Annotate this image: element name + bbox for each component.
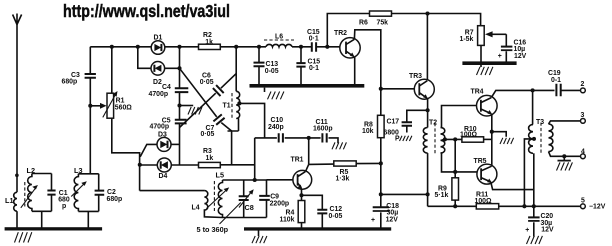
wire C18 node to T2 xyxy=(381,193,428,195)
diode D2 xyxy=(151,62,165,76)
wire D4 right to R3 xyxy=(171,164,198,166)
wire L3 tank to bus xyxy=(87,211,89,228)
svg-text:D4: D4 xyxy=(159,173,168,180)
wire R6 to R7 corner xyxy=(392,14,481,26)
inductor L6 xyxy=(266,44,292,46)
node rail C15 shunt column xyxy=(299,45,303,49)
svg-text:C19: C19 xyxy=(548,70,561,77)
wire T3 left top xyxy=(532,90,534,124)
terminal 3 xyxy=(581,119,586,124)
transistor TR2 xyxy=(340,38,360,58)
wire tap to rail xyxy=(524,139,534,206)
svg-text:T3: T3 xyxy=(536,119,544,126)
diode D1 xyxy=(151,41,165,55)
svg-text:680p: 680p xyxy=(62,78,78,85)
wire R1 wiper arrow xyxy=(90,103,106,109)
arrow L1-L2 tuning xyxy=(21,185,38,208)
wire L5 tank bottom xyxy=(223,217,267,219)
wire TR1 collector xyxy=(306,164,309,171)
terminal 4 xyxy=(581,154,586,159)
node TR2 base feedback xyxy=(325,45,329,49)
wire tap to R10 xyxy=(445,138,462,140)
wire D4 left xyxy=(140,164,158,166)
wire TR4 collector xyxy=(491,90,554,97)
svg-text:L1: L1 xyxy=(5,196,14,205)
inductor L1 xyxy=(14,192,17,211)
capacitor C19 xyxy=(556,84,560,96)
resistor R2 xyxy=(199,44,221,49)
node rail D2 column xyxy=(136,45,140,49)
potentiometer R1 xyxy=(112,47,140,191)
capacitor C18 xyxy=(373,206,389,208)
node TR1 emitter xyxy=(299,193,303,197)
svg-text:http://www.qsl.net/va3iul: http://www.qsl.net/va3iul xyxy=(63,1,230,21)
svg-text:2: 2 xyxy=(581,81,585,88)
svg-text:TR1: TR1 xyxy=(291,157,304,164)
svg-text:L4: L4 xyxy=(192,204,200,211)
svg-text:C17: C17 xyxy=(387,119,400,126)
node D3 D4 left junction xyxy=(138,163,142,167)
resistor R6 xyxy=(370,11,392,16)
svg-text:P: P xyxy=(395,135,400,142)
node rail C20 tap xyxy=(522,204,526,208)
svg-text:0-05: 0-05 xyxy=(329,213,343,220)
wire L2 tank bottom xyxy=(32,210,52,212)
svg-text:1k: 1k xyxy=(206,155,214,162)
ground stub terminal 4 xyxy=(562,154,566,158)
diode D3 xyxy=(157,137,171,151)
node T3 centre tap xyxy=(532,137,536,141)
wire top rail left xyxy=(90,46,151,48)
wire bridge column xyxy=(179,47,181,165)
svg-text:L6: L6 xyxy=(275,34,283,41)
svg-text:T1: T1 xyxy=(223,102,231,109)
transformer T1 xyxy=(235,47,237,92)
wire T2 right bottom to TR5 base xyxy=(441,153,478,172)
ground bus IF section xyxy=(250,84,365,88)
wire TR4 emitter column xyxy=(491,114,493,166)
core L1-L2 dashed xyxy=(24,182,26,207)
svg-text:12V: 12V xyxy=(514,53,527,60)
wire L2 tank top xyxy=(32,173,52,175)
node tap R9 branch xyxy=(453,137,457,141)
transistor TR5 xyxy=(477,164,497,184)
capacitor C5 xyxy=(175,120,187,124)
wire L5 tank top xyxy=(223,179,267,181)
resistor R10 xyxy=(462,137,484,142)
wire T1 tap to C10 line xyxy=(239,103,264,137)
wire L2 tank to bus xyxy=(41,211,43,228)
ground hatch C17 xyxy=(400,136,412,141)
callout line C8 xyxy=(220,203,241,225)
wire D2 branch xyxy=(138,47,180,69)
wire T3 left bottom to rail xyxy=(533,153,535,206)
ground bus R7 C16 xyxy=(462,61,516,65)
inductor L2 xyxy=(28,174,32,212)
resistor R11 xyxy=(476,204,498,209)
svg-text:3: 3 xyxy=(581,112,585,119)
svg-text:1600p: 1600p xyxy=(313,125,333,132)
svg-text:0·05: 0·05 xyxy=(200,79,214,86)
ground hatch R7 bus xyxy=(480,65,482,67)
transistor TR4 xyxy=(477,95,498,116)
node T1 tap xyxy=(237,101,241,105)
svg-text:C4: C4 xyxy=(162,84,171,91)
svg-text:R1: R1 xyxy=(116,98,125,105)
wire R7 wiper arrow xyxy=(485,31,506,37)
wire antenna mast xyxy=(16,24,18,192)
wire T3 to terminal 3 xyxy=(549,121,581,124)
node C3 column wiper xyxy=(88,104,92,108)
svg-text:+: + xyxy=(371,217,375,224)
terminal 2 xyxy=(581,88,586,93)
svg-text:5: 5 xyxy=(581,198,585,205)
wire D1 to bridge node xyxy=(165,46,199,48)
resistor R5 xyxy=(309,163,381,164)
ground stub TR4 xyxy=(492,132,506,137)
svg-text:0-05: 0-05 xyxy=(265,68,279,75)
wire T1 bottom link xyxy=(228,118,239,131)
svg-text:TR4: TR4 xyxy=(471,89,484,96)
svg-text:+: + xyxy=(525,227,529,234)
capacitor C20 xyxy=(533,206,535,217)
transistor TR1 xyxy=(293,170,312,189)
wire T2 right top to TR4 base xyxy=(441,106,477,128)
svg-text:12V: 12V xyxy=(386,216,399,223)
svg-text:110k: 110k xyxy=(280,216,295,223)
node TR3 base R8 xyxy=(379,87,383,91)
wire D3 left xyxy=(140,144,157,156)
diagonal bridge C6 xyxy=(180,74,237,128)
svg-text:D3: D3 xyxy=(158,131,167,138)
arrow L4-L5 tuning xyxy=(207,187,230,208)
wire L1 to ground bus xyxy=(16,211,18,228)
svg-text:TR5: TR5 xyxy=(474,158,487,165)
node on mast xyxy=(15,174,19,178)
wire TR2 feedback to R6 xyxy=(327,14,369,47)
svg-text:0·05: 0·05 xyxy=(201,131,215,138)
core L4-L5 dashed xyxy=(213,181,215,211)
wire rail L6 to C15 xyxy=(292,46,312,48)
capacitor C15 series xyxy=(312,42,316,52)
svg-text:100Ω: 100Ω xyxy=(475,198,492,205)
ground bus middle xyxy=(244,227,391,230)
ground bus left xyxy=(5,227,103,230)
transformer T2 xyxy=(434,123,436,154)
svg-text:1·3k: 1·3k xyxy=(336,175,350,182)
svg-text:0·1: 0·1 xyxy=(309,36,319,43)
capacitor C17 xyxy=(407,110,428,132)
svg-text:4: 4 xyxy=(581,149,585,156)
wire L3 tank top xyxy=(78,173,98,175)
svg-text:2200p: 2200p xyxy=(270,200,290,207)
capacitor C16 xyxy=(505,34,507,61)
potentiometer R7 xyxy=(478,26,485,46)
svg-text:1-5k: 1-5k xyxy=(460,36,474,43)
node TR3 collector rail xyxy=(425,11,429,15)
wire TR3 collector xyxy=(426,14,428,81)
diode D4 xyxy=(157,158,171,172)
svg-text:D2: D2 xyxy=(153,79,162,86)
wire TR1 base xyxy=(267,179,294,181)
node bridge ground stub xyxy=(177,103,181,107)
ground hatch left bus xyxy=(15,232,32,242)
wire -12V rail xyxy=(428,205,581,207)
diagonal bridge C7 xyxy=(180,68,232,131)
resistor R4 xyxy=(298,201,305,223)
node R9 TR5 base xyxy=(453,170,457,174)
ground stub mid bridge xyxy=(180,105,194,107)
node emitter ground stub xyxy=(490,130,494,134)
svg-text:5·1k: 5·1k xyxy=(435,192,449,199)
capacitor C1 xyxy=(51,174,53,212)
capacitor C15 shunt xyxy=(300,47,302,85)
svg-text:C8: C8 xyxy=(245,203,254,212)
ground hatch C11 xyxy=(332,142,346,149)
ground hatch IF bus xyxy=(264,88,266,92)
wire C10 C11 line xyxy=(255,138,338,143)
wire R7 bottom xyxy=(480,45,482,61)
wire L5 feed vertical xyxy=(254,138,256,180)
svg-text:TR3: TR3 xyxy=(409,73,422,80)
svg-text:0·1: 0·1 xyxy=(309,65,319,72)
svg-text:10k: 10k xyxy=(362,128,374,135)
svg-text:R6: R6 xyxy=(359,20,368,27)
node bridge column top xyxy=(177,45,181,49)
svg-text:560Ω: 560Ω xyxy=(115,105,132,112)
capacitor C3 xyxy=(89,47,91,174)
wire R8 node down xyxy=(380,163,382,207)
svg-text:680p: 680p xyxy=(107,196,123,203)
resistor R8 xyxy=(380,89,382,164)
svg-text:T2: T2 xyxy=(429,120,437,127)
node C10 C11 collector tap xyxy=(307,136,311,140)
capacitor C13 xyxy=(258,47,260,85)
capacitor C4 xyxy=(175,88,189,92)
svg-text:−12V: −12V xyxy=(589,204,606,211)
svg-text:5 to 360p: 5 to 360p xyxy=(197,225,229,234)
svg-text:75k: 75k xyxy=(377,20,389,27)
antenna xyxy=(13,14,22,25)
node C18 top xyxy=(379,192,383,196)
inductor L5 xyxy=(218,180,222,218)
svg-text:12V: 12V xyxy=(541,227,554,234)
svg-text:+: + xyxy=(498,53,502,60)
svg-text:4700p: 4700p xyxy=(149,91,169,98)
resistor R9 xyxy=(452,178,459,200)
svg-text:4700p: 4700p xyxy=(150,124,170,131)
terminal 5 xyxy=(581,204,586,209)
wire R9 branch vertical xyxy=(454,139,456,177)
capacitor C9 xyxy=(266,180,268,218)
wire TR3 emitter xyxy=(427,99,429,128)
wire T3 to terminal 4 xyxy=(549,152,581,157)
svg-text:100Ω: 100Ω xyxy=(460,131,477,138)
wire TR2 emitter to bus xyxy=(354,57,356,85)
capacitor C11 xyxy=(322,133,326,142)
inductor L4 xyxy=(140,190,205,192)
svg-text:240p: 240p xyxy=(268,124,284,131)
capacitor C10 xyxy=(279,133,283,142)
capacitor C12 xyxy=(302,195,323,227)
wire TR1 emitter xyxy=(301,189,303,201)
node TR3 emitter C17 xyxy=(426,108,430,112)
svg-text:p: p xyxy=(62,203,66,210)
node rail R1 column xyxy=(110,45,114,49)
node T2 centre tap xyxy=(443,137,447,141)
wire T2 left bottom xyxy=(427,153,429,206)
wire R3 right to L5 feed xyxy=(220,164,254,166)
inductor L3 xyxy=(74,174,78,212)
node bridge D2 level xyxy=(177,66,181,70)
svg-text:0-1: 0-1 xyxy=(551,77,561,84)
wire TR3 base xyxy=(381,88,415,90)
transformer T3 xyxy=(540,123,542,155)
node T2 C18 line xyxy=(426,192,430,196)
ground hatch middle bus xyxy=(258,231,260,237)
wire TR5 emitter xyxy=(491,182,534,190)
wire L3 tank bottom xyxy=(78,210,98,212)
wire D3 right xyxy=(171,143,180,145)
transistor TR3 xyxy=(414,79,434,99)
wire TR2 collector xyxy=(354,30,380,89)
wire R3 vertical link xyxy=(231,131,233,165)
svg-text:L5: L5 xyxy=(216,170,225,179)
node rail T1 column xyxy=(234,45,238,49)
variable capacitor C8 xyxy=(243,180,245,218)
node R5 R8 junction xyxy=(379,161,383,165)
ground hatch C20 xyxy=(527,236,543,244)
arrow L3 tuning xyxy=(71,181,87,196)
svg-text:1k: 1k xyxy=(205,39,213,46)
resistor R3 xyxy=(199,162,221,167)
wire rail R2 to T1 xyxy=(220,46,266,48)
wire C15 to TR2 base xyxy=(316,46,340,48)
svg-text:D1: D1 xyxy=(154,34,163,41)
wire collector tap down xyxy=(308,138,310,165)
capacitor C2 xyxy=(98,174,100,212)
svg-text:TR2: TR2 xyxy=(334,30,347,37)
